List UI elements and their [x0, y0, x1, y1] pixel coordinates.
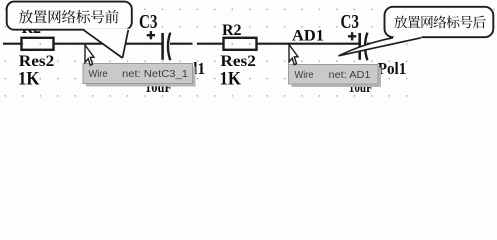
svg-text:1K: 1K [18, 69, 40, 90]
svg-text:Pol1: Pol1 [378, 59, 407, 78]
wire left pin of R2 (right) [197, 43, 223, 45]
svg-text:net: AD1: net: AD1 [329, 70, 371, 81]
wire right of C3 (right) [367, 43, 392, 45]
capacitor C3 plus sign [147, 31, 155, 39]
balloon tail (left) [84, 29, 130, 58]
tooltip shadow [86, 67, 196, 87]
resistor R2 (right, Res2) [224, 38, 257, 50]
svg-text:Res2: Res2 [19, 53, 55, 70]
capacitor C3 curved negative plate [168, 33, 170, 61]
balloon text 放置网络标号后 [394, 16, 485, 29]
wire right of C3 [170, 43, 193, 45]
tooltip box [289, 65, 379, 85]
resistor R2 (left, Res2) [22, 38, 54, 50]
balloon body (left) [7, 2, 132, 30]
schematic grid dots [5, 9, 495, 97]
capacitor C3 positive plate [161, 33, 164, 60]
wire left pin of R2 [3, 43, 21, 45]
svg-text:R2: R2 [222, 22, 242, 39]
mouse cursor right [289, 45, 298, 65]
svg-text:C3: C3 [139, 11, 158, 33]
wire R2 to C3 with net AD1 [257, 43, 359, 45]
balloon text 放置网络标号前 [19, 10, 119, 24]
tooltip box [83, 64, 193, 84]
wire R2 to C3 [54, 43, 162, 45]
capacitor C3 plus sign (right) [348, 32, 356, 40]
svg-text:net: NetC3_1: net: NetC3_1 [122, 69, 188, 80]
tooltip shadow [292, 68, 382, 88]
svg-text:Res2: Res2 [220, 53, 256, 70]
mouse cursor left [85, 45, 94, 65]
balloon tail (right) [339, 36, 422, 56]
capacitor C3 curved negative plate (right) [365, 33, 367, 61]
svg-text:C3: C3 [341, 11, 360, 33]
capacitor C3 positive plate (right) [358, 33, 361, 60]
svg-text:AD1: AD1 [292, 28, 324, 45]
balloon body (right) [385, 7, 494, 37]
svg-text:Wire: Wire [295, 70, 314, 81]
svg-text:Wire: Wire [89, 69, 108, 80]
svg-text:1K: 1K [220, 69, 242, 90]
